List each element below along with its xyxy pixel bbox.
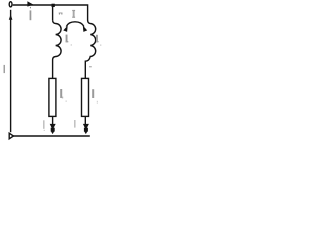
node junction (top, left branch) bbox=[52, 4, 55, 7]
voltage arrow U (left, pointing up between terminals) bbox=[10, 10, 12, 132]
label L1 (gray, right of left coil) bbox=[66, 35, 68, 43]
tiny gray mark below right coil bbox=[89, 66, 92, 67]
label M value (gray bar above arc) bbox=[72, 10, 75, 11]
wire below R1 with down arrow bbox=[52, 116, 54, 124]
node junction (bottom, left branch) bbox=[51, 128, 55, 132]
inductor L1 (left coil) bbox=[53, 20, 62, 78]
wire bottom rail bbox=[13, 135, 90, 137]
coupling arrow M (curved, double-headed, between coil tops) bbox=[66, 22, 84, 27]
label U (gray bar at far left) bbox=[4, 65, 6, 73]
label i1 (gray dash left of left bottom arrow) bbox=[43, 120, 44, 129]
wire below R2 with down arrow bbox=[84, 116, 86, 124]
terminal T1 (top-left) bbox=[9, 2, 12, 7]
resistor R2 (right box) bbox=[82, 78, 89, 116]
label i2 (gray dash left of right bottom arrow) bbox=[74, 120, 75, 128]
label R1 (gray, right of left box) bbox=[60, 89, 62, 98]
label I (gray, under top arrow) bbox=[30, 10, 32, 20]
wire left branch upper bbox=[52, 5, 54, 20]
terminal T2 (bottom-left) bbox=[9, 133, 13, 139]
wire top rail to right branch corner bbox=[13, 5, 88, 21]
current arrow I (on top rail) bbox=[27, 1, 33, 6]
label m (tiny gray dashes above arc) bbox=[59, 12, 63, 15]
node junction (bottom, right branch) bbox=[84, 128, 88, 132]
label L2 (gray, right of right coil) bbox=[96, 35, 98, 43]
inductor L2 (right coil) bbox=[85, 20, 95, 78]
label R2 (gray, right of right box) bbox=[92, 89, 94, 98]
resistor R1 (left box) bbox=[49, 78, 56, 116]
